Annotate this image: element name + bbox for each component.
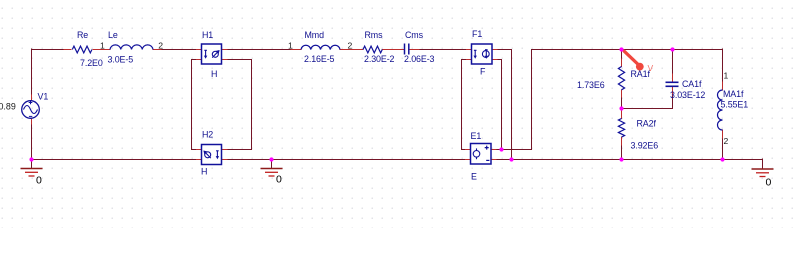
svg-text:0: 0 xyxy=(276,174,282,186)
svg-text:E: E xyxy=(471,172,477,182)
svg-text:2.16E-5: 2.16E-5 xyxy=(304,54,335,64)
svg-text:1: 1 xyxy=(100,40,105,50)
svg-text:MA1f: MA1f xyxy=(723,89,744,99)
svg-text:3.03E-12: 3.03E-12 xyxy=(670,90,705,100)
svg-text:1: 1 xyxy=(724,71,729,81)
svg-text:H1: H1 xyxy=(202,30,213,40)
svg-text:F: F xyxy=(480,67,486,77)
svg-text:1.73E6: 1.73E6 xyxy=(577,80,605,90)
svg-text:2: 2 xyxy=(158,41,163,51)
svg-text:0: 0 xyxy=(36,175,42,187)
svg-text:3.92E6: 3.92E6 xyxy=(631,141,659,151)
svg-text:2.06E-3: 2.06E-3 xyxy=(404,54,435,64)
svg-text:RA1f: RA1f xyxy=(631,69,651,79)
svg-text:H: H xyxy=(211,69,217,79)
svg-text:0.89: 0.89 xyxy=(0,102,16,112)
svg-text:V1: V1 xyxy=(38,92,49,102)
svg-text:2.30E-2: 2.30E-2 xyxy=(364,54,395,64)
svg-text:Re: Re xyxy=(77,30,88,40)
svg-text:2: 2 xyxy=(348,40,353,50)
svg-text:0: 0 xyxy=(766,177,772,189)
svg-text:1: 1 xyxy=(288,40,293,50)
svg-text:7.2E0: 7.2E0 xyxy=(80,58,103,68)
svg-text:5.55E1: 5.55E1 xyxy=(721,100,749,110)
svg-text:Rms: Rms xyxy=(365,30,384,40)
svg-text:Mmd: Mmd xyxy=(305,30,325,40)
svg-text:E1: E1 xyxy=(471,131,482,141)
svg-text:3.0E-5: 3.0E-5 xyxy=(108,55,134,65)
svg-text:Cms: Cms xyxy=(405,30,424,40)
svg-text:H2: H2 xyxy=(202,130,213,140)
svg-text:RA2f: RA2f xyxy=(637,119,657,129)
svg-text:F1: F1 xyxy=(472,29,482,39)
svg-text:CA1f: CA1f xyxy=(682,79,702,89)
svg-text:2: 2 xyxy=(724,136,729,146)
svg-text:H: H xyxy=(201,167,207,177)
svg-text:Le: Le xyxy=(108,30,118,40)
